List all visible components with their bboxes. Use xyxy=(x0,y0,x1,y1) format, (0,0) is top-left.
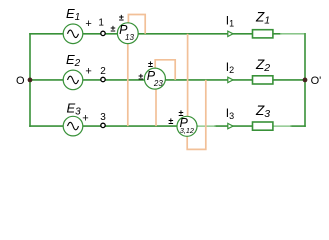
svg-text:Z3: Z3 xyxy=(255,103,270,120)
svg-text:±: ± xyxy=(148,59,153,69)
svg-text:E1: E1 xyxy=(66,6,80,23)
svg-text:23: 23 xyxy=(153,79,163,88)
svg-text:I2: I2 xyxy=(226,60,234,75)
svg-text:±: ± xyxy=(168,116,173,126)
svg-text:3,12: 3,12 xyxy=(180,126,194,135)
svg-text:E2: E2 xyxy=(66,52,81,69)
svg-text:E3: E3 xyxy=(67,100,82,117)
svg-text:I3: I3 xyxy=(226,106,234,121)
svg-text:±: ± xyxy=(119,12,124,22)
svg-text:O': O' xyxy=(311,75,322,87)
svg-text:Z2: Z2 xyxy=(255,57,270,74)
svg-text:+: + xyxy=(82,112,88,124)
svg-text:+: + xyxy=(85,18,91,30)
svg-text:2: 2 xyxy=(100,66,106,77)
svg-text:+: + xyxy=(85,65,91,77)
svg-text:±: ± xyxy=(138,71,143,81)
svg-text:Z1: Z1 xyxy=(255,9,270,26)
svg-text:±: ± xyxy=(111,24,116,34)
svg-text:13: 13 xyxy=(125,33,134,42)
svg-text:I1: I1 xyxy=(226,14,234,29)
svg-text:1: 1 xyxy=(98,17,104,28)
svg-text:3: 3 xyxy=(100,112,106,123)
svg-text:O: O xyxy=(16,75,25,87)
svg-text:±: ± xyxy=(179,108,184,118)
